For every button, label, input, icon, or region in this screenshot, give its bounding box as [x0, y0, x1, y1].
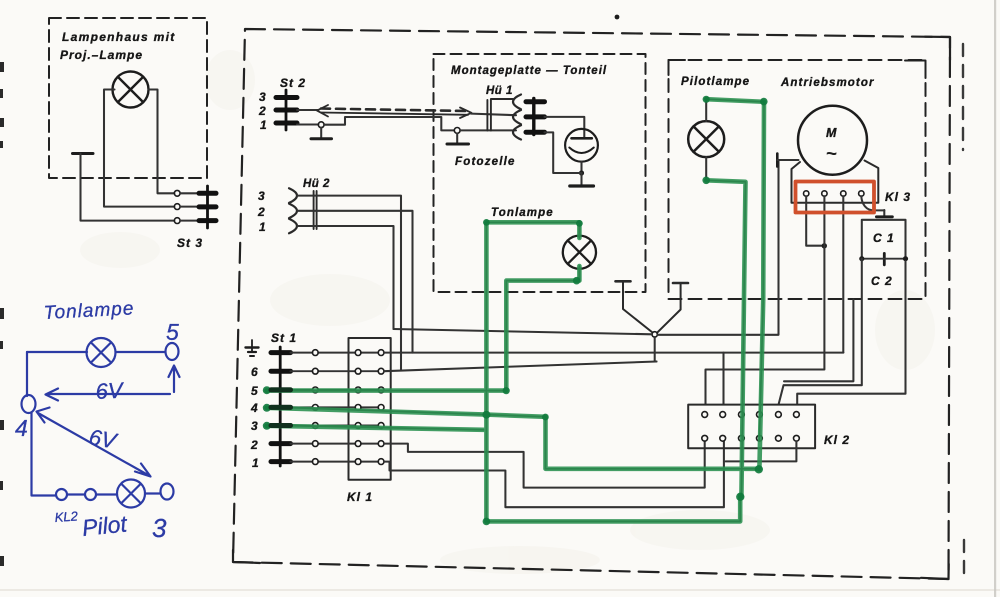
- capacitor C1: [883, 210, 885, 215]
- terminal strip Kl3 circles: [804, 191, 865, 196]
- black wires under green traces: [290, 99, 764, 521]
- green trace row4 to Kl2 col4: [267, 408, 760, 469]
- svg-text:Pilotlampe: Pilotlampe: [681, 76, 750, 88]
- svg-text:Fotozelle: Fotozelle: [455, 156, 516, 168]
- svg-text:3: 3: [259, 90, 266, 104]
- wire row6 to pickup stem: [384, 362, 657, 372]
- wire row2 loop to Kl2 col1 bottom: [384, 441, 705, 487]
- sketch node 5: [166, 343, 179, 360]
- svg-text:1: 1: [260, 118, 267, 132]
- motor left tee terminal: [776, 154, 779, 167]
- svg-text:Pilot: Pilot: [81, 510, 130, 541]
- ground at Fotozelle: [456, 133, 458, 143]
- wire row1 loop to Kl2 col2 bottom: [384, 441, 724, 507]
- wire plug bottom to tube bottom: [545, 132, 582, 173]
- wire extra drop to col5 path: [784, 300, 853, 382]
- svg-text:5: 5: [251, 384, 258, 398]
- node junction circle: [652, 332, 657, 337]
- svg-text:Tonlampe: Tonlampe: [43, 298, 135, 324]
- dashed box Montageplatte-Tonteil: [434, 54, 646, 292]
- lamp Pilotlampe: [688, 121, 724, 157]
- green junction blobs: [263, 96, 768, 526]
- main outer dashed box: [233, 29, 950, 579]
- wire tube cathode down: [580, 162, 582, 173]
- wire chassis to St3 bottom contact: [81, 154, 175, 221]
- green trace Tonlampe bottom to row5: [267, 266, 580, 391]
- connector St 3: [206, 186, 209, 228]
- sketch lamp Pilot: [117, 480, 145, 508]
- contact circle Fotozelle: [454, 127, 460, 133]
- lamp stubs: [578, 224, 580, 279]
- highlight rectangle on Kl3 (orange): [796, 182, 875, 213]
- svg-text:2: 2: [258, 104, 266, 118]
- sketch lamp Tonlampe: [87, 338, 116, 367]
- wire plug middle to tube anode: [545, 117, 585, 137]
- svg-text:2: 2: [250, 438, 258, 452]
- wire Hue2 pin3 down to row6: [298, 196, 402, 370]
- wire cap left leg to Kl2 col5: [779, 259, 862, 404]
- svg-text:Hü 2: Hü 2: [303, 178, 330, 190]
- ground at tube: [580, 173, 582, 185]
- Kl2 top row circles: [702, 412, 800, 418]
- faint scan smudges: [80, 50, 935, 574]
- motor mount housing: [792, 161, 879, 203]
- svg-text:St 1: St 1: [271, 331, 297, 345]
- wire junction right up to motor tee: [657, 160, 778, 334]
- svg-text:Tonlampe: Tonlampe: [491, 207, 554, 219]
- sketch node 4: [22, 395, 36, 413]
- svg-text:C 2: C 2: [871, 274, 893, 288]
- green trace Tonlampe top down through rows: [486, 222, 579, 521]
- ground at St2: [320, 128, 322, 138]
- wire ground row down to Kl2 col2 top: [722, 353, 724, 405]
- ground symbol at St1: [246, 340, 259, 356]
- contact circles column: [312, 350, 318, 465]
- green trace row3: [267, 426, 484, 430]
- svg-text:3: 3: [258, 189, 265, 203]
- optic pickup tees and junction: [616, 281, 689, 333]
- wire lamp left to St3 middle contact: [104, 90, 174, 207]
- wire terminal3 down to ground row: [842, 196, 844, 352]
- svg-text:KL2: KL2: [54, 508, 79, 525]
- wire junction left to Hue2 pin1: [394, 329, 653, 334]
- svg-text:6V: 6V: [95, 377, 126, 403]
- dashed enclosure: Lampenhaus box: [49, 18, 207, 178]
- svg-text:5: 5: [166, 319, 179, 345]
- wire St2 pin2: [297, 109, 318, 111]
- svg-text:St 3: St 3: [177, 236, 203, 250]
- contact circle pin1: [318, 122, 324, 128]
- svg-text:Antriebsmotor: Antriebsmotor: [780, 77, 875, 89]
- wire Hue2 pin2 down to ground row: [298, 211, 413, 353]
- svg-text:6V: 6V: [87, 424, 120, 454]
- wire Kl2 col6 bottom jumper to col2: [726, 441, 797, 461]
- shielded cable to Fotozelle: [317, 105, 472, 118]
- dark ticks re-stamped over green rows: [271, 390, 291, 426]
- Kl1 terminal circles right column: [378, 350, 384, 465]
- Kl2 bottom row circles: [702, 435, 800, 441]
- svg-text:Kl 3: Kl 3: [885, 190, 911, 204]
- sketch 6V arrow horizontal: [169, 366, 180, 393]
- dashed box Pilotlampe/Antriebsmotor: [669, 60, 926, 299]
- stray dot top: [615, 15, 620, 20]
- svg-text:Montageplatte — Tonteil: Montageplatte — Tonteil: [451, 65, 607, 77]
- wire terminal4 hook to C1: [861, 196, 884, 210]
- sketch 6V arrow diagonal: [37, 408, 151, 477]
- paper edge dashes right: [963, 44, 964, 575]
- junction dot: [579, 170, 584, 175]
- sketch bottom loop: [32, 413, 56, 496]
- wires contacts to St3 plug: [180, 193, 200, 220]
- green trace pilot bottom to Kl2 col3: [706, 180, 745, 497]
- chassis bar symbol: [73, 152, 94, 155]
- wire lamp right to St3 top contact: [149, 90, 175, 194]
- motor Antriebsmotor: [798, 106, 867, 175]
- terminal block Kl 2: [688, 405, 815, 449]
- svg-text:Lampenhaus mit: Lampenhaus mit: [62, 30, 176, 44]
- sketch wires top: [22, 338, 180, 508]
- svg-text:Proj.–Lampe: Proj.–Lampe: [60, 48, 143, 62]
- wire terminal1 jumper to terminal2 line: [806, 196, 821, 245]
- pilot lamp stubs: [705, 100, 707, 180]
- wire cap right leg to Kl2 col6: [797, 261, 905, 403]
- wire Hue2 pin1 down to photo node line: [298, 226, 394, 329]
- photocell tube: [565, 129, 598, 162]
- wire fotozelle contact to coil: [460, 129, 516, 131]
- terminal block Kl 1: [349, 338, 391, 480]
- svg-text:2: 2: [257, 205, 265, 219]
- svg-text:6: 6: [251, 365, 258, 379]
- svg-text:1: 1: [252, 456, 259, 470]
- wire terminal2 down to Kl2 col1 top: [706, 196, 825, 404]
- connector St 2: [285, 90, 288, 130]
- green trace pilot top to Kl2 col4: [267, 99, 765, 521]
- connector plug at photocell: [532, 99, 535, 135]
- svg-text:4: 4: [250, 401, 258, 415]
- svg-text:Kl 2: Kl 2: [824, 433, 850, 447]
- green trace bottom loop to Kl2 col3: [486, 495, 740, 521]
- paper edge marks left: [0, 62, 4, 566]
- svg-text:C 1: C 1: [873, 231, 895, 245]
- sketch node 3: [161, 484, 174, 500]
- wire St2 pin1: [297, 123, 318, 125]
- svg-text:~: ~: [826, 144, 837, 165]
- wire pin1 to shield/fotozelle line: [324, 117, 454, 130]
- wire ground row to Kl2 col2: [384, 352, 843, 354]
- svg-text:Hü 1: Hü 1: [486, 85, 513, 97]
- row wires St1 to Kl1 with contact circles: [291, 353, 379, 462]
- svg-text:4: 4: [15, 415, 28, 441]
- svg-text:1: 1: [259, 220, 266, 234]
- svg-text:3: 3: [251, 419, 258, 433]
- wire junction stem down to row6: [655, 337, 657, 361]
- svg-text:St 2: St 2: [280, 76, 306, 90]
- svg-text:3: 3: [152, 513, 167, 543]
- svg-text:M: M: [826, 126, 837, 140]
- sketch left vertical to node 4: [26, 352, 28, 396]
- contact circles at St3: [174, 190, 180, 223]
- Kl1 terminal circles left column: [355, 350, 361, 465]
- wire cable to Hue1: [471, 114, 516, 116]
- cap loop top and sides: [862, 220, 906, 259]
- svg-text:Kl 1: Kl 1: [347, 490, 373, 504]
- capacitor C2: [883, 253, 886, 264]
- lamp projection lamp: [113, 72, 149, 108]
- page edge shadow right: [994, 0, 996, 597]
